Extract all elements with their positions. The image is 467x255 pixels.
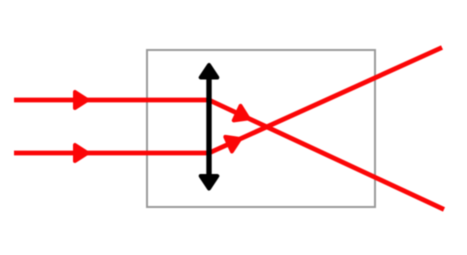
lens arrowhead down (201, 176, 218, 189)
wire refracted ray 2 (209, 48, 442, 154)
lens arrow shaft (206, 68, 211, 185)
wire incoming ray 1 (14, 98, 211, 103)
arrowhead ray 2 (75, 145, 88, 161)
lens box (147, 50, 375, 207)
lens arrowhead up (201, 65, 218, 78)
wire incoming ray 2 (14, 151, 211, 156)
arrowhead refracted ray 1 (234, 106, 252, 126)
arrowhead ray 1 (75, 92, 88, 108)
arrowhead refracted ray 2 (225, 132, 243, 152)
wire refracted ray 1 (209, 100, 444, 209)
